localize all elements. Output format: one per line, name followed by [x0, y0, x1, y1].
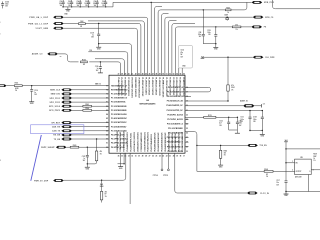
note box row4	[181, 57, 184, 59]
pin number right 3	[186, 96, 188, 98]
pin name right 4	[167, 100, 183, 103]
pin name bottom 8	[140, 132, 143, 152]
label C116 voltage	[34, 94, 37, 96]
pin number U5 pin3	[313, 170, 314, 172]
wire C98 top lead	[105, 0, 107, 2]
resistor R176	[204, 115, 216, 118]
label C98 voltage	[102, 5, 105, 7]
pin name left 15	[111, 142, 128, 145]
wire bottom pin gnd b	[123, 153, 125, 164]
wire net FLCX_IN	[175, 153, 247, 193]
label C96 value	[93, 3, 97, 5]
wire staircase net c	[88, 52, 128, 75]
label C92 value	[59, 3, 63, 5]
wire C94 bottom lead	[79, 4, 81, 7]
wire C118 bottom lead	[215, 36, 217, 44]
net flag RX_EN	[53, 134, 72, 137]
label FB146 value	[224, 13, 229, 16]
capacitor C104	[1, 4, 4, 6]
wire SPI1_SCLK segment1	[72, 105, 83, 107]
junction pullup R161 tap	[227, 57, 228, 58]
pin number top 10	[149, 72, 151, 75]
label C122 value	[219, 122, 222, 125]
pin name top 16	[168, 77, 171, 96]
wire SPI1_SCLK segment2	[92, 105, 110, 107]
capacitor C119	[90, 33, 100, 39]
pin name right 8	[167, 118, 182, 121]
junction cap row C96	[97, 6, 98, 7]
wire C97 bottom lead	[236, 124, 238, 130]
capacitor C122	[227, 122, 230, 124]
pin number bottom 20	[183, 156, 185, 158]
pin name right 6	[167, 109, 184, 112]
pin name bottom 5	[130, 133, 133, 152]
ground C116	[29, 102, 34, 105]
capacitor C96	[96, 2, 99, 4]
label C104 voltage	[5, 6, 9, 8]
capacitor C118	[207, 30, 217, 36]
label net 1V8 on wire	[89, 50, 92, 52]
wire ADDR_C0 segment2	[89, 62, 120, 75]
pin number left 14	[106, 139, 108, 141]
label C97 ref	[239, 120, 242, 122]
wire right stub row 13	[185, 146, 189, 148]
capacitor C97	[236, 122, 239, 124]
pin number left 11	[106, 126, 108, 128]
pin name bottom 13	[157, 132, 160, 152]
wire net CLK_PWR	[204, 56, 252, 58]
pin number left 6	[106, 106, 108, 108]
wire net ADDR_00	[185, 105, 243, 107]
wire staircase net d	[95, 59, 124, 75]
label C93 ref	[68, 1, 71, 3]
wire cap-row bus up-turn to net	[112, 2, 114, 7]
resistor R163	[83, 104, 92, 107]
wire C122 bottom lead	[228, 124, 230, 130]
pin number bottom 5	[131, 156, 133, 158]
wire right stub r3	[185, 95, 191, 97]
label C92 voltage	[60, 5, 63, 7]
pin number bottom 19	[180, 156, 182, 158]
wire net PS row8	[175, 27, 232, 75]
wire C108 bottom lead	[261, 119, 263, 131]
label R151 value	[15, 87, 19, 90]
net flag ADDR_00	[243, 104, 254, 107]
wire C96 bottom lead	[96, 4, 98, 7]
wire C119 gnd stem	[98, 44, 100, 47]
wire 3v3 U5 vertical	[285, 142, 287, 181]
test point FTP14	[161, 169, 163, 171]
wire gnd bus bottom right	[286, 191, 320, 193]
label C93 value	[67, 3, 71, 5]
wire net PWR_UA_L1_DSP segment1	[64, 23, 79, 25]
net flag PWR_UA_L_DSP	[29, 16, 63, 19]
net flag PWR_UA_L1_DSP	[28, 22, 64, 25]
wire C99 bottom lead	[202, 36, 204, 44]
wire R167 top lead	[220, 145, 222, 150]
wire row3 to row1 jog	[231, 2, 247, 9]
label U5 part	[295, 175, 302, 178]
pin number right 9	[186, 122, 188, 125]
label C92 ref	[60, 1, 63, 3]
pin number left 7	[106, 110, 108, 112]
pin name top 18	[175, 77, 178, 96]
wire C111 top lead	[249, 111, 251, 117]
wire R7 bottom stub	[101, 200, 103, 203]
wire row2 short net	[155, 6, 162, 75]
pin number top 20	[183, 73, 185, 75]
pin number left 10	[106, 122, 108, 124]
label R168 tol	[266, 176, 269, 178]
pin number bottom 7	[138, 156, 140, 158]
op-amp U5 oscillator body	[295, 159, 312, 174]
junction gnd bus bottom left	[87, 163, 88, 164]
pin name top 13	[158, 77, 161, 96]
label C94 value	[76, 3, 80, 5]
pin number bottom 13	[159, 155, 161, 158]
pin name right 11	[168, 133, 183, 135]
capacitor C99	[198, 32, 205, 38]
resistor R165	[70, 145, 79, 148]
pin number top 6	[135, 72, 137, 75]
net flag SPI1_POCI	[50, 101, 72, 104]
pin name right 13	[167, 141, 184, 144]
wire ground net to pin	[99, 44, 132, 75]
label R169 value	[313, 158, 315, 160]
pin name left 14	[111, 138, 128, 141]
wire row7 short net	[172, 24, 195, 76]
junction cap row C94	[80, 6, 81, 7]
wire C92 bottom lead	[62, 4, 64, 7]
pin number right 10	[186, 128, 188, 130]
wire ADDR_C0 segment1	[58, 54, 79, 62]
wire SPI1_PRC3 segment1	[72, 109, 83, 111]
junction cap row C93	[71, 6, 72, 7]
pin number bottom 17	[173, 156, 175, 158]
net flag SPIB_PICO	[252, 1, 275, 4]
label ADDR_00	[240, 99, 248, 102]
resistor R164	[83, 107, 92, 111]
pin number top 8	[142, 72, 144, 75]
junction TX8 tee	[196, 145, 197, 146]
resistor R62	[79, 21, 86, 24]
pin name top 8	[141, 77, 144, 97]
wire right pin row ADDR pull	[185, 100, 228, 102]
junction C99 tap	[203, 9, 204, 10]
pin name right 3	[167, 96, 184, 98]
wire net to R168	[197, 170, 264, 172]
ground C118 C99	[213, 47, 218, 50]
wire net row3 R160	[158, 10, 225, 75]
junction TX_EN pulldown tap	[96, 138, 97, 139]
junction 3v3 branch right	[285, 148, 286, 149]
pin name top 1	[117, 77, 120, 95]
junction C121 tap	[87, 147, 88, 148]
wire net SPIB row1	[113, 1, 252, 3]
wire C104 bottom lead	[2, 5, 4, 8]
pin name top 10	[148, 77, 151, 96]
label C122 ref	[219, 120, 223, 122]
wire gnd bus C99-C118	[203, 43, 216, 45]
ground R167	[218, 165, 223, 168]
label U5 refdes	[300, 157, 302, 159]
pin number bottom 10	[149, 156, 151, 158]
pin name left 16	[111, 146, 125, 149]
ground C117	[284, 194, 289, 197]
pin number bottom 11	[152, 156, 154, 158]
label C108 voltage	[253, 121, 256, 123]
net flag SBW_DIO	[51, 93, 72, 96]
wire crystal pin a	[178, 68, 180, 75]
pin number bottom 9	[145, 156, 147, 158]
pin number bottom 15	[166, 156, 168, 158]
pin number bottom 14	[162, 156, 164, 158]
pin number left 4	[106, 98, 108, 100]
pin number left 5	[106, 102, 108, 104]
pin number right 12	[186, 137, 188, 139]
wire bottom gnd stem	[120, 164, 122, 167]
wire sheet box corner top right	[273, 0, 320, 9]
wire TX_EN	[72, 138, 109, 140]
pin number right 5	[186, 105, 188, 107]
wire C92 top lead	[62, 0, 64, 2]
net flag SPI1_PRC3	[49, 109, 72, 112]
wire C118 gnd stem	[215, 44, 217, 48]
pin number left 2	[106, 89, 108, 91]
wire C117 gnd stem	[285, 192, 287, 195]
pin name top 4	[127, 77, 129, 96]
wire caps gnd stem	[261, 131, 263, 135]
pin name left 3	[111, 94, 128, 96]
label C98 value	[101, 3, 105, 5]
capacitor C108	[261, 117, 264, 119]
capacitor C120	[95, 66, 102, 72]
label R168 value	[266, 174, 269, 176]
wire right stub row 12	[185, 141, 189, 143]
pin name bottom 12	[154, 132, 157, 152]
wire C119 bottom lead	[98, 36, 100, 44]
capacitor C92	[62, 2, 65, 4]
pin number left 1	[106, 85, 108, 87]
wire R151 to IC	[22, 85, 109, 87]
junction C119 ground node	[98, 43, 99, 44]
junction C120 tap	[100, 61, 101, 62]
pin number right 13	[186, 142, 188, 144]
pin name right 15	[168, 150, 183, 153]
pin number right 6	[186, 110, 188, 112]
pin number bottom 18	[176, 156, 178, 158]
label C95 voltage	[85, 5, 88, 7]
pin name top 19	[179, 77, 182, 96]
junction C111 gnd	[249, 130, 250, 131]
net flag VOUT_GEN	[36, 27, 64, 30]
resistor R166	[95, 150, 102, 161]
wire C97 top lead	[236, 117, 238, 122]
pin number right 11	[186, 133, 188, 135]
label R169 dnp	[313, 156, 316, 158]
junction C111 tap	[249, 110, 250, 111]
label C108 value	[253, 119, 257, 121]
label C104 ref	[5, 1, 9, 4]
pin number top 12	[155, 72, 157, 75]
label R168 ref	[264, 169, 268, 171]
selection drag line (blue)	[31, 135, 42, 181]
pin number U5 pin2	[292, 170, 293, 172]
resistor R160	[225, 8, 231, 14]
pin number top 2	[121, 73, 123, 75]
resistor R167	[219, 150, 227, 158]
junction gnd bus right	[215, 43, 216, 44]
pin name right 2	[167, 91, 184, 93]
wire C116 bottom lead	[31, 91, 33, 102]
pin number top 17	[173, 73, 175, 75]
pin name bottom 10	[147, 132, 150, 151]
note box crystal Y1	[179, 45, 193, 68]
pin number right 15	[186, 151, 188, 153]
net flag SPI_RDY	[51, 121, 72, 124]
pin name top 12	[155, 77, 158, 96]
resistor R168	[264, 170, 273, 172]
wire U5 vcc stub	[286, 162, 295, 164]
note box row5 GND	[182, 65, 185, 67]
capacitor C98	[104, 2, 107, 4]
pin number right 2	[186, 91, 188, 93]
pin name bottom 18	[174, 132, 177, 152]
net flag ADDR_C0	[32, 53, 58, 56]
wire right pin row R176 b	[216, 116, 238, 118]
label net SBWTDIO	[95, 84, 102, 86]
label R169 ref	[313, 154, 317, 156]
wire C121 top lead	[86, 147, 88, 155]
junction C118 tap	[215, 26, 216, 27]
wire R167 bottom lead	[220, 158, 222, 165]
wire bottom pin gnd a	[120, 153, 122, 164]
pin name right 12	[167, 136, 184, 139]
wire DSPF_SHUNT segment2	[79, 146, 109, 148]
wire C94 top lead	[79, 0, 81, 2]
pin name bottom 7	[136, 132, 139, 151]
wire DSPF_SHUNT segment1	[67, 146, 71, 148]
label U4 part number	[139, 102, 156, 105]
junction R167 tap	[220, 145, 221, 146]
label C95 ref	[85, 1, 88, 3]
selection highlight box (blue)	[31, 125, 84, 134]
junction 3v3 R7 tap	[101, 180, 102, 181]
pin name top 14	[161, 77, 163, 98]
pin name right 14	[167, 145, 184, 148]
ground C122 C97	[235, 132, 240, 134]
pin name left 12	[111, 129, 127, 132]
label C117 voltage	[276, 184, 279, 186]
ground cap row	[65, 9, 70, 12]
pin name top 9	[144, 77, 147, 95]
wire SPI1_PRC3 segment2	[92, 109, 110, 111]
capacitor C95	[87, 2, 90, 4]
wire crystal pin b	[181, 68, 183, 75]
pin name bottom 11	[150, 134, 153, 151]
wire U5 gnd vertical	[308, 175, 310, 192]
wire C121 gnd stem	[86, 164, 88, 167]
pin name left 6	[111, 106, 127, 108]
net flag CAN_TX	[52, 129, 72, 132]
pin number left 13	[106, 135, 108, 137]
wire net SPIB_CS row5	[165, 17, 253, 75]
pin number bottom 8	[142, 156, 144, 158]
label R62 value	[80, 26, 83, 28]
label R169 tol	[313, 160, 316, 162]
clipped net text left edge a	[0, 22, 1, 24]
wire C96 top lead	[96, 0, 98, 2]
pin number left 9	[106, 118, 108, 120]
junction C117 gnd	[285, 191, 286, 192]
pin name top 6	[134, 77, 136, 97]
net flag SPIB_CS	[253, 16, 274, 19]
label C111 voltage	[240, 121, 243, 123]
pin name bottom 6	[133, 132, 136, 151]
pin number bottom 3	[125, 155, 127, 158]
net flag TX_EN	[54, 138, 72, 141]
label C117 ref	[276, 180, 280, 182]
wire pullup R161 top lead	[227, 57, 229, 85]
wire net VOUT_GEN	[64, 28, 138, 75]
wire ADDR_00 to 3v3	[254, 105, 262, 107]
ground IC bottom	[118, 167, 123, 170]
pin number left 15	[106, 143, 108, 145]
power 3v3 bottom	[100, 184, 104, 186]
wire right pin row caps	[185, 110, 262, 112]
note box row1 C114	[181, 49, 185, 52]
net flag PS	[251, 26, 267, 29]
pin number left 16	[106, 147, 108, 149]
wire net PWR_UA_L_DSP	[64, 17, 148, 75]
junction C108 gnd	[262, 130, 263, 131]
pin number top 19	[180, 73, 182, 75]
pin number right 1	[186, 87, 188, 89]
ground C119	[96, 47, 101, 50]
wire SPI1_POCI	[72, 101, 109, 103]
ground C121	[85, 167, 90, 170]
wire right stub row 11	[185, 137, 189, 139]
pin name top 5	[131, 77, 133, 98]
label C93 voltage	[68, 5, 71, 7]
net flag DSPF_SHUNT	[41, 146, 66, 149]
pin name top 15	[165, 77, 168, 96]
wire SBW_DIO	[72, 93, 109, 95]
wire 3v3 R7 stem	[101, 180, 103, 186]
note box row3	[181, 54, 183, 56]
pin name right 10	[168, 128, 183, 130]
pin name bottom 16	[167, 132, 170, 152]
wire C99 top lead	[202, 10, 204, 34]
junction U5 vcc	[285, 162, 286, 163]
wire SPI1_PICO	[72, 97, 109, 99]
wire SBW_CLK	[72, 89, 109, 91]
label C95 value	[84, 3, 88, 5]
pin name right 5	[166, 104, 183, 107]
clipped net text left edge b	[0, 33, 1, 35]
wire C98 bottom lead	[105, 4, 107, 7]
wire C121 bottom lead	[86, 157, 88, 164]
wire C117 bottom lead	[285, 183, 287, 192]
resistor R150	[81, 60, 88, 66]
wire row4 short net	[162, 14, 169, 76]
pin name left 5	[111, 101, 126, 104]
wire right stub row 8	[185, 123, 189, 125]
pin name bottom 9	[143, 132, 146, 151]
pin number right 14	[186, 146, 188, 148]
label small at ADDR_C0	[60, 56, 62, 58]
wire right pins jumper loop	[185, 87, 211, 92]
